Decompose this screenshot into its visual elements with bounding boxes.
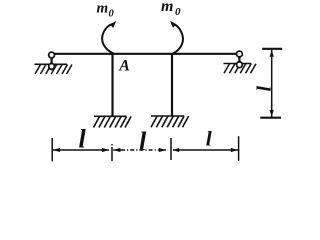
svg-text:l: l <box>79 124 87 153</box>
svg-text:0: 0 <box>175 6 181 18</box>
svg-text:m: m <box>161 0 173 15</box>
svg-text:A: A <box>118 57 130 74</box>
svg-text:0: 0 <box>109 9 115 20</box>
svg-text:l: l <box>139 127 147 156</box>
svg-text:l: l <box>252 86 274 92</box>
svg-text:m: m <box>97 1 109 17</box>
svg-text:l: l <box>206 127 212 151</box>
